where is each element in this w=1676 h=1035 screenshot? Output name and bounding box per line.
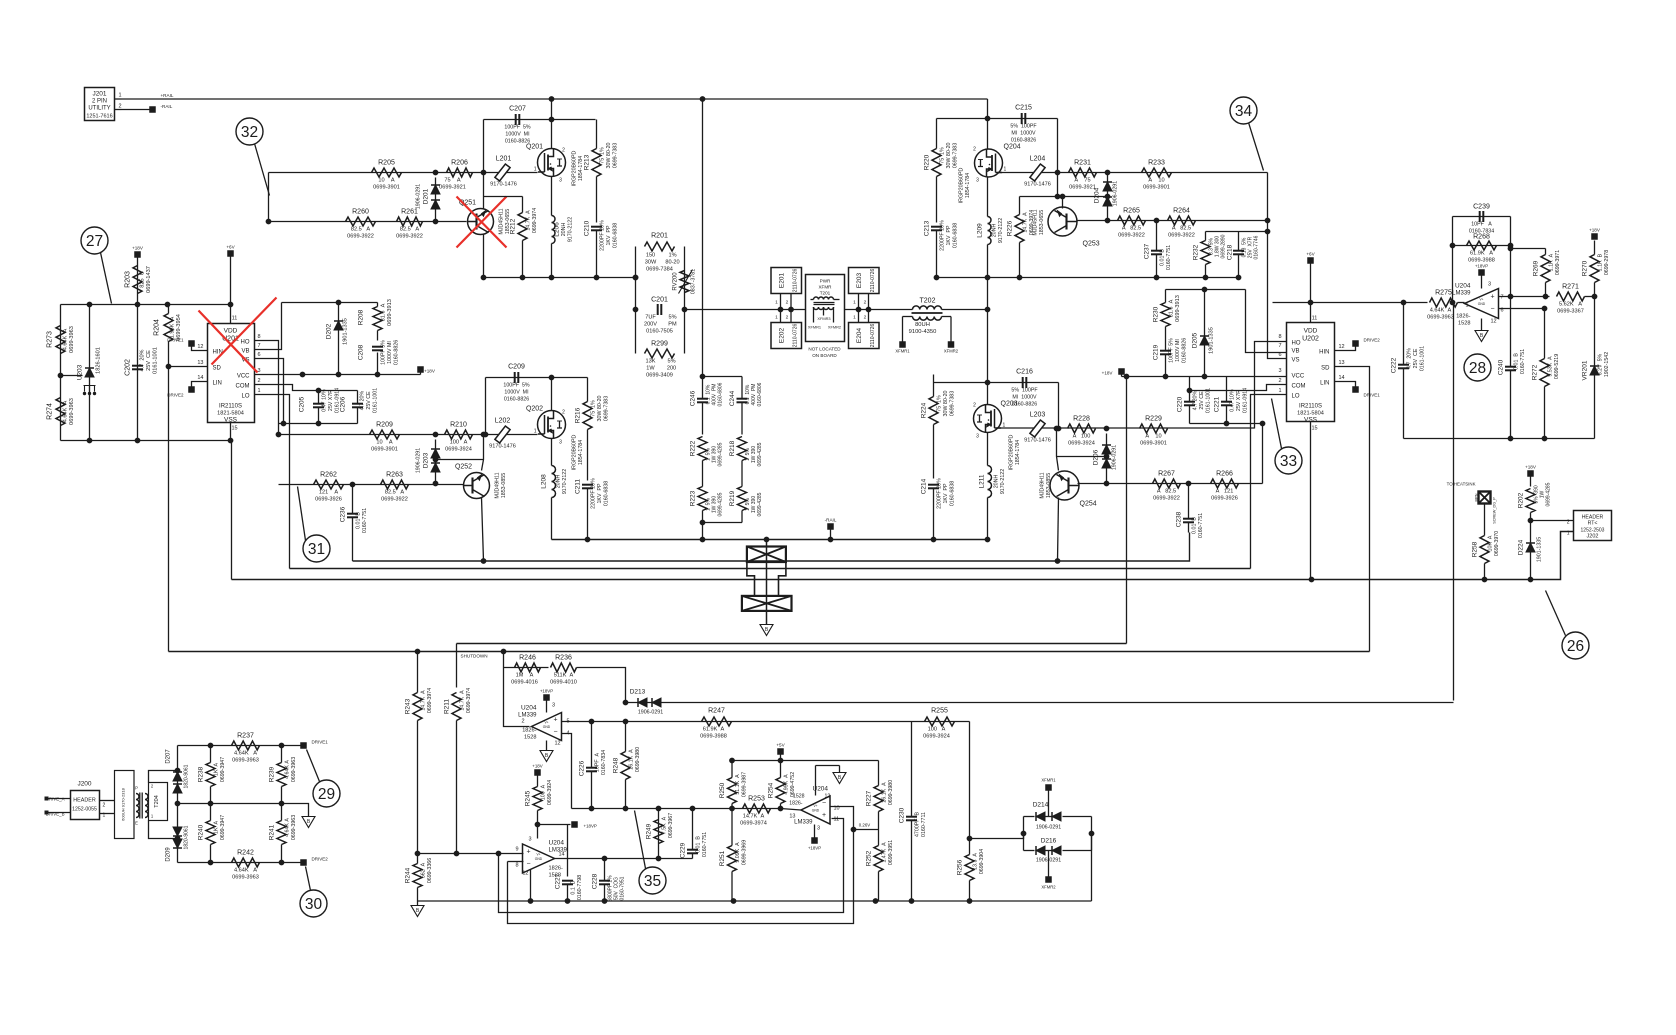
junction [1543,294,1549,300]
junction [1154,218,1160,224]
svg-text:RV200: RV200 [673,272,679,291]
power +18VP c4 [1475,264,1488,289]
svg-text:PWR: PWR [820,279,831,284]
junction [1055,558,1061,564]
svg-text:0699-3901: 0699-3901 [373,185,400,191]
svg-text:HO: HO [241,340,250,346]
capacitor C201 [644,297,677,335]
wire r249 col [658,809,660,859]
svg-text:1826-: 1826- [789,801,803,807]
svg-text:DRIVE1: DRIVE1 [167,338,184,343]
wire xfmr row 3 [845,309,913,311]
svg-text:0160-7751: 0160-7751 [1166,245,1172,270]
junction [350,482,356,488]
wire L206 down [551,244,553,278]
svg-text:0160-8826: 0160-8826 [504,397,529,403]
wire Q201 src [551,177,553,216]
svg-text:T201: T201 [820,291,831,296]
bus -RAIL [552,539,988,541]
svg-text:31.6 A: 31.6 A [381,303,387,321]
svg-text:R230: R230 [1153,306,1160,322]
svg-text:T204: T204 [154,795,160,808]
svg-text:0699-7383: 0699-7383 [604,396,610,421]
pad XFMR1 [895,341,910,353]
wire cap bottom row [279,423,358,425]
svg-text:4.64K A: 4.64K A [234,751,257,757]
svg-text:LM339: LM339 [794,820,813,826]
wire ladder top [703,376,743,378]
svg-text:SHUTDOWN: SHUTDOWN [461,654,488,659]
wire mid rail left [484,277,636,279]
resistor R201 [645,233,680,273]
callout 35 [639,867,666,894]
svg-text:R227: R227 [866,790,873,806]
svg-text:1528: 1528 [793,794,805,800]
wire VDD col [230,257,232,324]
svg-text:0160-8826: 0160-8826 [1182,338,1188,363]
resistor R261 [396,209,423,240]
svg-text:15: 15 [231,426,237,432]
svg-text:IRGP20B60PD: IRGP20B60PD [572,435,578,471]
svg-text:25V CE: 25V CE [1199,391,1205,410]
svg-text:D213: D213 [630,689,646,696]
resistor R269 [1533,249,1562,297]
svg-text:C205: C205 [299,396,306,412]
wire gnd col [231,441,233,580]
svg-text:600UH 9170-2318: 600UH 9170-2318 [121,787,126,820]
ground mid [760,625,773,636]
svg-text:0699-3963: 0699-3963 [291,757,297,782]
ground bl [411,901,424,917]
bus4 gnd [232,532,1574,580]
capacitor C209 [503,364,529,403]
svg-text:7: 7 [1278,343,1281,349]
junction [208,801,214,807]
svg-text:0161-1001: 0161-1001 [1206,388,1212,413]
svg-text:1: 1 [119,93,122,99]
wire c2 out [555,858,693,860]
callout 29 [313,780,340,807]
svg-text:0699-3922: 0699-3922 [1153,496,1180,502]
wire R205 row [269,172,538,174]
svg-text:13: 13 [1339,360,1345,366]
svg-text:1901-1335: 1901-1335 [1209,327,1215,354]
svg-text:R299: R299 [651,341,668,348]
junction [778,758,784,764]
wire xfmr row 4 [942,309,988,311]
wire VCC row [255,374,421,376]
svg-text:R239: R239 [269,766,276,782]
resistor R274 [47,398,76,426]
svg-text:1853-0855: 1853-0855 [1046,473,1052,498]
svg-text:10PF A: 10PF A [595,752,601,772]
junction [967,898,973,904]
svg-text:C220: C220 [1177,396,1184,412]
svg-text:0699-3922: 0699-3922 [347,234,374,240]
wire D204 col [1107,173,1109,221]
svg-text:+: + [1490,294,1494,301]
svg-text:100 A: 100 A [541,784,547,800]
svg-text:+6V: +6V [1306,252,1315,257]
svg-text:0160-6806: 0160-6806 [757,382,763,406]
svg-text:Q254: Q254 [1080,501,1097,508]
svg-text:3: 3 [817,826,820,832]
svg-text:1KV PP: 1KV PP [597,483,603,503]
heatsink screw [1447,482,1497,524]
svg-text:0699-4016: 0699-4016 [511,680,538,686]
svg-text:0161-1001: 0161-1001 [373,388,379,413]
capacitor C220 [1177,377,1212,424]
wire C207 left col [483,120,485,197]
svg-text:−: − [526,861,530,868]
svg-text:25V CE: 25V CE [366,391,372,410]
junction [528,898,534,904]
svg-text:26.1K A: 26.1K A [882,782,888,803]
junction [934,275,940,281]
svg-text:10 A: 10 A [378,178,394,184]
svg-text:C240: C240 [1498,359,1505,375]
junction [228,438,234,444]
svg-text:−: − [822,800,826,807]
junction [165,302,171,308]
resistor R245 [525,776,554,839]
junction [585,537,591,543]
label DRIVE_B [45,811,71,817]
junction [656,806,662,812]
resistor R250 [719,761,748,809]
wire LO [255,395,290,569]
junction [594,275,600,281]
wire plus7 row [1499,296,1550,298]
junction [300,372,306,378]
resistor R268 [1467,234,1497,264]
svg-text:0699-3947: 0699-3947 [220,757,226,782]
svg-text:R213: R213 [584,154,591,170]
svg-text:30W 80-20: 30W 80-20 [946,142,952,168]
svg-text:1: 1 [258,388,261,394]
svg-text:IRGP20B60PD: IRGP20B60PD [1009,435,1015,471]
svg-text:A 100: A 100 [1073,434,1091,440]
svg-text:C211: C211 [575,479,582,494]
wire c1 plus row [562,721,970,723]
svg-text:C237: C237 [1144,243,1151,259]
junction [549,375,555,381]
svg-text:82.5 A: 82.5 A [400,227,420,233]
resistor R223 [690,487,724,523]
resistor R256 [957,839,986,902]
junction [656,856,662,862]
capacitor C228 [592,859,626,902]
svg-text:14: 14 [559,852,565,858]
junction [208,860,214,866]
wire right block bottom [1404,438,1595,440]
svg-text:R247: R247 [708,708,725,715]
svg-text:4.64K A: 4.64K A [285,818,291,837]
svg-text:2: 2 [562,410,565,416]
connector E202 [771,310,802,349]
wire U203 col [89,305,91,441]
svg-text:R231: R231 [1074,160,1091,167]
wire R275 to comp [1458,302,1465,304]
junction [1124,374,1130,380]
svg-text:6: 6 [258,352,261,358]
svg-text:5% 100PF: 5% 100PF [1010,124,1037,130]
svg-text:A 82.5: A 82.5 [1157,489,1176,495]
svg-text:R210: R210 [450,422,467,429]
svg-text:C206: C206 [340,396,347,412]
callout 32 [236,118,263,145]
svg-text:E203: E203 [856,273,863,289]
wire 026 row [854,829,879,831]
svg-text:VS: VS [1292,358,1300,364]
wire bridge frame [1023,817,1025,851]
svg-text:D203: D203 [423,452,430,468]
resistor R220 [924,119,959,223]
svg-text:0161-0914: 0161-0914 [1243,388,1249,413]
svg-text:1854-1784: 1854-1784 [1015,440,1021,465]
svg-text:R236: R236 [555,655,572,662]
svg-text:0699-7384: 0699-7384 [646,267,673,273]
ground c1 [540,751,553,762]
pad XFMR2 br [1041,851,1056,890]
junction [985,380,991,386]
capacitor C238 [1176,484,1205,539]
svg-text:L211: L211 [979,474,986,488]
wire L209 down [987,245,989,278]
svg-text:3: 3 [976,434,979,440]
wire R203 col [137,258,139,305]
wire mid rail right [937,277,1239,279]
diode D207 [166,749,190,793]
resistor R275 [1427,290,1457,321]
resistor R299 [645,341,677,379]
svg-text:31: 31 [308,541,325,558]
svg-text:XFMR1: XFMR1 [895,349,910,354]
svg-text:R265: R265 [1123,208,1140,215]
junction [682,307,688,313]
bus3 [353,533,1190,562]
wire R260 row [269,221,467,223]
inductor L206 [552,216,574,244]
wire base row R2 end [1262,424,1264,484]
svg-text:0160-7798: 0160-7798 [577,875,583,900]
junction [851,827,857,833]
junction [828,537,834,543]
svg-text:20NH: 20NH [556,475,562,489]
wire e-row [484,196,523,198]
svg-text:0699-3951: 0699-3951 [888,840,894,865]
svg-text:XFMR3: XFMR3 [817,316,830,321]
svg-text:Q203: Q203 [1001,401,1018,408]
svg-text:C214: C214 [921,478,928,494]
wire Q251 emitter [483,197,485,209]
svg-text:11: 11 [1312,316,1318,322]
svg-text:0699-3987: 0699-3987 [742,772,748,797]
capacitor C205 [299,388,341,424]
junction [1202,287,1208,293]
svg-text:13.3 A: 13.3 A [973,853,979,870]
wire r246 row [504,667,549,669]
svg-text:−: − [1490,306,1494,313]
junction [1450,243,1456,249]
svg-text:GND: GND [1478,302,1486,306]
svg-text:3: 3 [1278,368,1281,374]
svg-text:100PF 5%: 100PF 5% [504,125,530,131]
wire R268 row [1453,245,1511,247]
svg-text:R269: R269 [1533,260,1540,276]
leader 35 [635,811,646,869]
resistor R272 [1532,309,1561,439]
svg-text:0160-6806: 0160-6806 [718,382,724,406]
wire T204 bot [149,821,178,839]
capacitor C236 [340,485,369,562]
capacitor C226 [579,722,608,809]
label DRIVE_A [45,797,71,802]
capacitor C219 [1153,338,1188,377]
wire +RAIL top [122,98,988,100]
svg-text:D206: D206 [1093,449,1100,465]
svg-text:R208: R208 [358,309,365,325]
capacitor C221 [1214,377,1249,424]
svg-text:J202: J202 [1587,534,1599,540]
svg-text:0160-7505: 0160-7505 [646,329,673,335]
capacitor C218 [1227,232,1260,278]
svg-text:14.7K A: 14.7K A [421,690,427,711]
wire L211 down [987,498,989,540]
svg-text:IRGP20B60PD: IRGP20B60PD [572,151,578,187]
svg-text:2: 2 [786,315,789,321]
crossed box NE1 [747,547,786,563]
wire J200 p1 [100,813,115,815]
junction [481,558,487,564]
svg-text:13: 13 [197,360,203,366]
wire R202 bot [1530,513,1532,543]
resistor R210 [445,422,473,453]
svg-text:1826-: 1826- [549,866,563,872]
svg-text:A 82.5: A 82.5 [1172,226,1191,232]
svg-text:9170-1476: 9170-1476 [1024,182,1051,188]
wire r255 down [969,722,971,839]
svg-text:SCREW_DG_P: SCREW_DG_P [1493,497,1497,524]
svg-text:20NH: 20NH [994,475,1000,489]
svg-text:100 A: 100 A [450,440,468,446]
wire NE center pin [766,540,768,625]
svg-text:12: 12 [554,741,560,747]
junction [433,432,439,438]
svg-text:0160-6838: 0160-6838 [953,223,959,248]
svg-text:3: 3 [559,178,562,184]
wire D206 col [1106,434,1108,484]
wire base row R2 [1078,483,1263,485]
busB [169,651,1370,653]
svg-text:27: 27 [86,233,103,250]
wire C239 left col [1452,217,1454,304]
junction [985,537,991,543]
diode D209 [166,825,190,861]
capacitor C222 [1391,303,1426,439]
junction [281,421,287,427]
junction [279,860,285,866]
wire C218 row [1206,231,1268,233]
junction [336,300,342,306]
junction [266,219,272,225]
svg-text:C208: C208 [358,344,365,360]
svg-text:0699-3901: 0699-3901 [1140,441,1167,447]
svg-text:2: 2 [973,147,976,153]
wire Q204 drain [987,119,989,150]
svg-text:1KV PP: 1KV PP [943,483,949,503]
wire 18vp row [538,824,571,826]
svg-text:C229: C229 [680,842,687,858]
resistor R219 [729,487,763,523]
svg-text:MJD45H11: MJD45H11 [499,208,505,234]
svg-text:SD: SD [213,366,222,372]
svg-text:TO HEATSINK: TO HEATSINK [1447,482,1476,487]
resistor R233 [1142,160,1172,191]
junction [415,649,421,655]
wire Q252 coll col [482,435,484,471]
wire HO [255,341,279,435]
svg-text:C213: C213 [924,220,931,236]
svg-text:12: 12 [1339,344,1345,350]
junction [1592,294,1598,300]
wire Q204 col down [987,278,989,405]
svg-text:E204: E204 [856,328,863,344]
inductor L208 [541,466,569,498]
resistor R227 [866,761,895,830]
wire Q202 drain [551,378,553,411]
leader 33 [1272,399,1282,449]
pad DRIVE2 R [1352,338,1380,347]
svg-text:HEADER: HEADER [73,798,96,804]
transistor Q251 [459,200,511,235]
svg-text:9170-1476: 9170-1476 [489,444,516,450]
svg-text:0699-4285: 0699-4285 [1546,482,1552,506]
svg-text:3: 3 [1488,282,1491,288]
resistor R254 [768,761,797,809]
transistor Q202 [526,406,584,471]
wire gate row R2 [997,427,1255,429]
svg-text:825 C: 825 C [140,271,146,287]
resistor R267 [1153,471,1181,502]
capacitor C229 [680,809,709,859]
capacitor C227 [555,873,584,901]
junction [1260,421,1266,427]
junction [1104,426,1110,432]
svg-text:R226: R226 [1007,220,1014,236]
wire c1 gnd [546,741,548,751]
svg-text:C230: C230 [899,807,906,823]
junction [375,372,381,378]
svg-text:R201: R201 [651,233,668,240]
capacitor C208 [358,340,400,375]
svg-text:0699-3969: 0699-3969 [742,840,748,865]
svg-text:R229: R229 [1145,416,1162,423]
svg-text:2: 2 [1567,520,1570,526]
svg-text:562 A: 562 A [421,862,427,878]
svg-text:0699-3901: 0699-3901 [371,447,398,453]
svg-text:0699-3970: 0699-3970 [1494,531,1500,556]
svg-text:100PF 5%: 100PF 5% [1169,338,1175,363]
wire SD R [1335,367,1370,652]
connector E204 [849,310,880,349]
resistor R232 [1193,232,1227,278]
power +18V [132,246,144,258]
svg-text:9: 9 [515,847,518,853]
wire D206 mid [1057,456,1107,458]
resistor R247 [700,708,731,740]
junction [1508,246,1514,252]
